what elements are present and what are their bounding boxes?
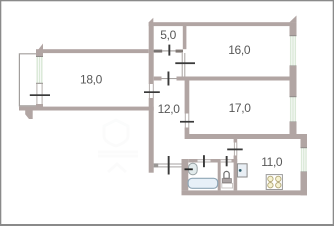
kitchen door dash bbox=[227, 149, 243, 151]
image frame border bbox=[0, 0, 334, 1]
toilet door dash bbox=[226, 156, 228, 166]
right wall window 2 (room 17.0) bbox=[291, 97, 296, 123]
window end separators bbox=[36, 57, 43, 84]
room 18.0 bottom wall bbox=[19, 107, 154, 111]
bathroom top wall left piece bbox=[188, 159, 197, 163]
toilet door opening face lines bbox=[221, 159, 232, 160]
entrance doorway threshold block bbox=[154, 163, 159, 167]
bath/toilet divider wall bbox=[218, 163, 221, 191]
entrance door dash bbox=[168, 156, 170, 175]
svg-text:12,0: 12,0 bbox=[158, 102, 181, 116]
balcony outline (thin lines, left of room 18.0) bbox=[19, 54, 36, 106]
svg-text:11,0: 11,0 bbox=[261, 155, 283, 169]
kitchen right wall lower bbox=[301, 172, 308, 195]
balcony door dash bbox=[30, 94, 50, 96]
kitchen left wall below door bbox=[234, 156, 238, 191]
bathroom door dash bbox=[203, 155, 205, 167]
stove bbox=[266, 175, 282, 190]
door 18.0 dash bbox=[144, 91, 160, 93]
door 17.0 dash bbox=[180, 121, 194, 123]
wall 16/17 divider going right to exterior wall bbox=[177, 77, 290, 81]
wall: bottom of 17.0 / top of kitchen+hall bbox=[185, 134, 307, 139]
bottom exterior wall bbox=[182, 190, 308, 195]
right wall solid bottom segment bbox=[290, 122, 297, 135]
wall 12.0/17.0 lower piece bbox=[185, 128, 190, 135]
center spine wall: top cap (chamfered) bbox=[149, 18, 154, 26]
kitchen door opening face lines bbox=[234, 143, 235, 156]
thin opening line in closet doorway bbox=[162, 78, 177, 79]
center spine wall lower bbox=[149, 98, 154, 173]
kitchen right exterior wall upper bbox=[301, 139, 308, 148]
door 16.0 dash bbox=[175, 62, 195, 64]
toilet bbox=[224, 171, 229, 178]
svg-text:5,0: 5,0 bbox=[160, 28, 176, 42]
balcony door opening face lines bbox=[36, 84, 37, 104]
bathtub bbox=[188, 178, 218, 188]
bathroom door opening face lines bbox=[198, 159, 211, 160]
kitchen left wall: stub above door bbox=[234, 139, 238, 143]
thin opening line in 5.0 doorway bbox=[162, 50, 175, 51]
washbasin bbox=[189, 163, 198, 174]
stub below bottom wall (chamfered) bbox=[25, 111, 33, 120]
left wall solid below balcony door bbox=[36, 104, 43, 111]
wall under closet (left piece) bbox=[154, 77, 162, 81]
kitchen window bbox=[302, 148, 306, 173]
closet door dash bbox=[168, 72, 170, 86]
thin wall between closet and 16.0 (two face lines) bbox=[182, 53, 183, 77]
kitchen sink bbox=[237, 164, 247, 177]
room 5.0 bottom wall, left piece bbox=[154, 49, 163, 52]
bathroom top wall middle piece (between doors) bbox=[211, 159, 221, 163]
toilet top wall right piece bbox=[232, 159, 238, 163]
left exterior wall of room 18.0: top cap (chamfered) bbox=[36, 44, 43, 57]
svg-text:17,0: 17,0 bbox=[229, 101, 252, 115]
wall between corridor 12.0 and room 17.0 (upper piece) bbox=[185, 81, 190, 114]
faint watermark bbox=[98, 120, 138, 172]
center spine wall upper (left wall of 5.0 / corridor) bbox=[149, 26, 154, 84]
room 18.0 top wall bbox=[36, 49, 149, 53]
room 5.0 right wall bbox=[183, 26, 187, 49]
svg-text:16,0: 16,0 bbox=[228, 43, 251, 57]
entrance doorway thin lines bbox=[154, 164, 182, 165]
right exterior wall: top cap chamfer bbox=[290, 16, 297, 23]
bathroom block left wall bbox=[182, 159, 189, 190]
right wall solid middle segment bbox=[290, 66, 297, 97]
top exterior wall (5.0/16.0) bbox=[149, 22, 297, 26]
svg-text:18,0: 18,0 bbox=[80, 72, 103, 86]
left wall window (3 green lines) bbox=[37, 57, 42, 84]
door 18.0 opening face lines bbox=[149, 84, 150, 98]
right wall solid top segment bbox=[290, 22, 297, 35]
door 17.0 opening face lines bbox=[185, 114, 186, 128]
right wall window 1 (room 16.0) bbox=[291, 36, 296, 67]
room 5.0 bottom wall, right piece bbox=[176, 49, 183, 52]
door 5.0 dash bbox=[168, 45, 170, 56]
